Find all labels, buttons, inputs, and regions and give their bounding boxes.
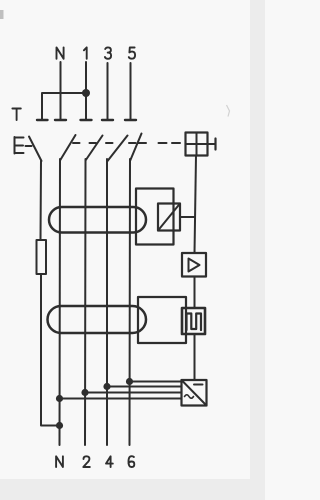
amplifier triangle [189, 259, 200, 272]
switch blade pole 5 [130, 134, 142, 162]
label 6 bottom [128, 456, 134, 467]
label 1 top [84, 47, 87, 58]
mechanism box [186, 133, 208, 156]
rectifier diagonal [182, 380, 207, 406]
junction dot test to N [56, 422, 63, 429]
paper edge shading bottom [0, 479, 265, 500]
switch blade pole 3 [108, 136, 128, 162]
wire bus mechanism to amp [195, 156, 197, 254]
linkage dash at mechanism [172, 142, 180, 144]
wire conductor 6 [129, 159, 132, 445]
ac mark [185, 395, 194, 399]
rectifier power supply box [182, 380, 207, 406]
relay diagonal [158, 204, 180, 231]
amplifier box U1 [182, 253, 206, 277]
filter box [182, 308, 205, 334]
wire bus filter to rectifier [194, 334, 196, 380]
node N top supply stub [60, 62, 62, 120]
switch blade pole N [60, 135, 76, 161]
wire conductor 2 [84, 159, 87, 445]
box trip unit K1 [136, 189, 174, 245]
wire conductor N [59, 159, 62, 445]
linkage dash after pole3 blade [129, 142, 136, 144]
dc mark [194, 384, 203, 386]
wire feeder from 2 [85, 392, 182, 394]
terminal cap N [55, 119, 66, 121]
label 3 top [105, 47, 111, 58]
wire feeder from N [60, 398, 182, 400]
paper edge shading right [250, 0, 265, 500]
box electronic unit K2 [138, 297, 186, 343]
label N bottom [56, 456, 63, 467]
junction dot 4 feeder [103, 383, 110, 390]
test button T actuator [15, 137, 24, 154]
scan scratch right [227, 105, 230, 117]
toroid CT1 [49, 207, 146, 233]
node L5 top supply stub [130, 63, 132, 120]
terminal cap 5 [125, 119, 136, 121]
terminal cap 3 [102, 119, 113, 121]
scan speck top-left [0, 10, 4, 19]
wire bus amp to filter [194, 277, 196, 309]
junction dot N feeder [56, 395, 63, 402]
switch blade pole 1 [86, 136, 103, 161]
mechanism cross [186, 133, 208, 156]
resistor test [37, 240, 47, 274]
wire mechanical linkage dash after N blade [73, 142, 80, 144]
label 4 bottom [106, 456, 113, 467]
linkage dash after pole5 blade [138, 142, 146, 144]
junction dot line1 top [82, 89, 90, 97]
wire test circuit lower [41, 274, 60, 426]
filter meander [187, 314, 202, 331]
terminal cap 1 [81, 119, 92, 121]
wire test tap from line 1 [42, 93, 86, 120]
node L1 top supply stub [85, 62, 87, 120]
junction dot 2 feeder [81, 389, 88, 396]
linkage dash after pole1 blade [106, 142, 113, 144]
label 2 bottom [83, 456, 90, 467]
relay coil [158, 204, 180, 231]
node L3 top supply stub [107, 63, 109, 120]
linkage dash before pole1 top [90, 142, 97, 144]
handle [208, 143, 216, 145]
switch blade test contact [29, 137, 42, 162]
junction dot 6 feeder [126, 378, 133, 385]
wire feeder from 6 [130, 381, 182, 383]
wire relay to bus [180, 216, 195, 218]
label N top [57, 47, 64, 58]
wire test circuit down [40, 161, 43, 240]
label T [12, 109, 20, 121]
toroid CT2 [48, 306, 147, 333]
wire conductor 4 [106, 159, 108, 445]
wire feeder from 4 [107, 386, 182, 388]
terminal cap test contact [37, 119, 48, 121]
dash from button to test blade [26, 145, 32, 147]
handle tick [214, 139, 216, 150]
linkage dash before mechanism [159, 142, 167, 144]
label 5 top [129, 48, 135, 59]
